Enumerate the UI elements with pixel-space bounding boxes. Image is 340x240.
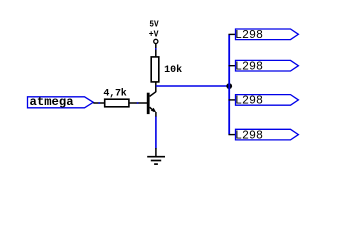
power symbol +V with 5V label [149,18,159,43]
ground [147,148,165,164]
resistor R2 10k [151,57,182,82]
svg-text:+V: +V [149,29,159,40]
wire atmega flag to base resistor [93,102,104,104]
svg-text:L298: L298 [235,94,263,108]
svg-text:10k: 10k [164,64,182,76]
wire vertical bus feeding L298 flags [228,34,230,134]
wire 10k resistor to collector [155,82,157,92]
net flag L298 #1 [235,28,298,42]
junction dot [226,83,232,89]
wire emitter to ground [155,117,157,149]
svg-text:4,7k: 4,7k [103,88,126,100]
net flag atmega [28,96,94,109]
transistor Q1 NPN [147,92,156,117]
stub to L298 flag 3 [229,99,237,101]
wire resistor to transistor base [129,102,147,104]
net flag L298 #2 [235,59,298,73]
net flag L298 #4 [235,128,298,142]
wire +V to 10k resistor [155,44,157,57]
stub to L298 flag 1 [229,33,237,35]
stub to L298 flag 4 [229,134,237,136]
stub to L298 flag 2 [229,65,237,67]
svg-text:L298: L298 [235,128,263,142]
svg-text:L298: L298 [235,28,263,42]
svg-text:L298: L298 [235,59,263,73]
wire collector node to junction [156,85,229,87]
net flag L298 #3 [235,94,298,108]
resistor R1 4,7k [103,88,128,107]
svg-text:atmega: atmega [30,96,74,109]
